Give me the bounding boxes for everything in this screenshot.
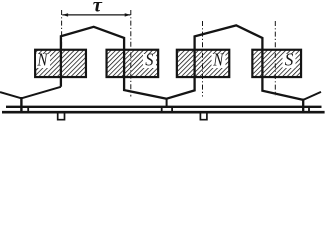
centerline DL3 <box>202 21 204 97</box>
svg-text:N: N <box>37 49 49 69</box>
arrowhead right <box>125 13 131 16</box>
joint tick left <box>27 106 29 113</box>
centerline DL4 <box>274 21 276 96</box>
linear motor pole-pitch diagram <box>0 0 330 125</box>
rail line2 <box>2 111 325 114</box>
centerline DL1 <box>61 10 63 49</box>
magnet M4 (S) <box>252 50 301 77</box>
coil2 lower-right lead <box>303 92 321 100</box>
collector stem middle <box>166 98 168 108</box>
dimension arrow shaft <box>62 14 130 16</box>
magnet M3 (N) <box>177 50 229 77</box>
magnet M2 (S) <box>107 50 159 77</box>
magnet M1 (N) <box>35 50 86 77</box>
arrowhead left <box>62 13 68 16</box>
svg-text:S: S <box>145 49 153 69</box>
label halo N3 <box>212 54 226 68</box>
coil1 end-winding tent + sides <box>61 27 167 99</box>
rail line1 <box>6 106 322 108</box>
collector stem left <box>20 97 22 113</box>
rail tab 1 <box>58 113 65 120</box>
centerline DL2 <box>130 10 132 97</box>
joint tick mid-right <box>171 106 173 113</box>
svg-text:N: N <box>212 49 224 69</box>
joint tick right <box>308 106 310 113</box>
joint tick mid-left <box>161 106 163 113</box>
label halo S4 <box>283 54 296 68</box>
coil2 end-winding tent + sides <box>167 25 304 100</box>
coil1 lower-left lead <box>0 87 61 99</box>
rail tab 2 <box>200 113 207 120</box>
collector stem right <box>302 99 304 113</box>
label halo S2 <box>143 54 156 68</box>
svg-text:τ: τ <box>93 0 103 17</box>
svg-text:S: S <box>285 49 294 69</box>
label halo N1 <box>36 54 50 68</box>
